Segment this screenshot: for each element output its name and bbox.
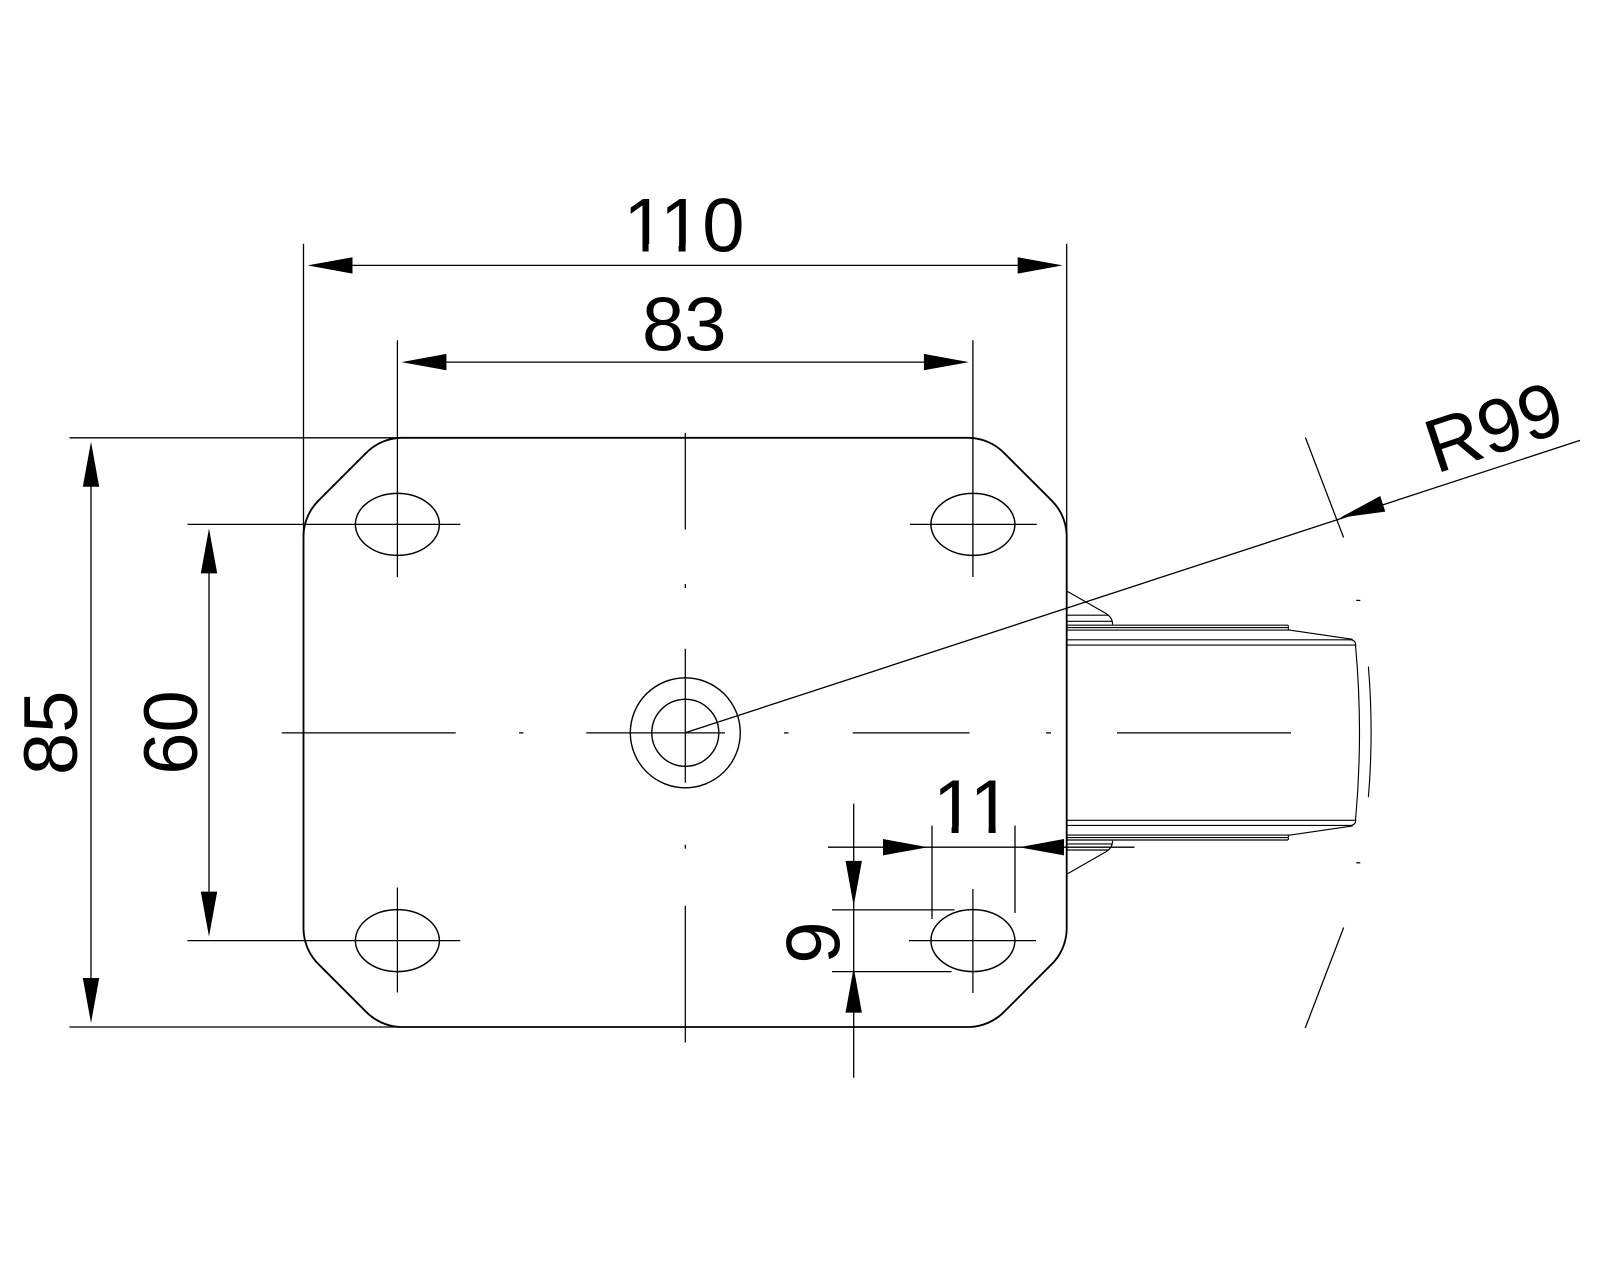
svg-text:60: 60 [129,690,214,775]
svg-text:110: 110 [623,183,744,268]
svg-text:11: 11 [933,765,1012,850]
svg-text:83: 83 [642,283,727,368]
svg-text:85: 85 [9,691,94,776]
svg-text:9: 9 [772,921,857,963]
